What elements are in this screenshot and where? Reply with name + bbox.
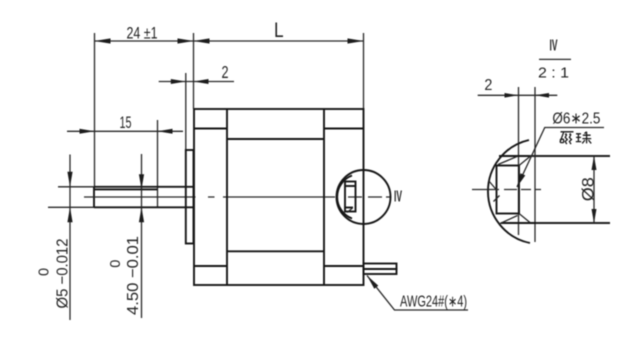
leader line AWG	[367, 276, 468, 311]
detail dimension line 2	[478, 94, 558, 96]
detail leader arrow	[517, 173, 525, 187]
svg-text:Ø8: Ø8	[579, 177, 597, 201]
extension line boss face x=185.8	[185, 73, 187, 150]
extension line shaft end x=94.5	[94, 33, 96, 187]
svg-text:0: 0	[108, 260, 124, 268]
rear endbell chamfer bottom	[324, 265, 364, 267]
front endbell chamfer top	[194, 128, 227, 130]
shaft bottom edge	[94, 206, 194, 208]
detail bead rectangle	[497, 166, 520, 214]
svg-text:IV: IV	[550, 37, 558, 54]
stator bottom line	[227, 250, 324, 252]
extension line rear face x=363.5	[363, 33, 365, 109]
detail Ø8 arrow up	[592, 156, 597, 170]
dimension line 2 (boss width)	[159, 81, 234, 83]
detail Ø8 extension top	[530, 155, 611, 157]
shaft top edge	[94, 186, 194, 188]
detail title underline	[539, 58, 571, 60]
arrow Ø5 up	[67, 207, 72, 222]
shaft top extension line	[58, 186, 94, 188]
detail bore top line Ø8	[499, 155, 610, 157]
dimension line 24±1 and L (shared line y=41)	[95, 40, 364, 42]
detail leader line	[517, 127, 545, 187]
svg-text:L: L	[274, 18, 284, 42]
svg-text:24 ±1: 24 ±1	[127, 23, 158, 42]
svg-text:AWG24#(∗4): AWG24#(∗4)	[400, 294, 467, 311]
bead inner bottom bar	[345, 207, 353, 209]
bead rectangle main view	[345, 182, 356, 212]
lead wires lower	[364, 269, 397, 274]
detail boundary arc	[488, 140, 530, 243]
arrow L right	[348, 38, 364, 43]
svg-text:0: 0	[37, 268, 53, 276]
arrow 4.50 down	[139, 174, 144, 189]
front endbell separation x=227	[226, 109, 228, 285]
svg-text:IV: IV	[394, 188, 402, 205]
extension line flat end x=157.5	[157, 120, 159, 207]
arrow Ø5 down	[67, 172, 72, 187]
label cizhu (magnetic bead) glyph 磁	[560, 132, 574, 144]
shaft bottom extension line	[48, 206, 94, 208]
shaft flat line	[94, 188, 158, 190]
hatch line bottom left	[499, 216, 518, 225]
svg-text:Ø6∗2.5: Ø6∗2.5	[552, 111, 600, 128]
svg-text:2: 2	[484, 77, 492, 94]
centerline main view	[84, 196, 391, 198]
boss rectangle (pilot)	[186, 150, 194, 244]
bead inner top bar	[345, 185, 356, 187]
label cizhu (magnetic bead) glyph 珠	[576, 132, 591, 144]
arrow 2 right	[194, 79, 209, 84]
dimension line 4.50 vertical x=141.5	[141, 154, 143, 318]
bead chamfer mark	[347, 208, 353, 213]
arrow 24±1 left	[95, 38, 111, 43]
detail Ø8 arrow down	[592, 209, 597, 223]
detail Ø8 extension bottom	[536, 222, 610, 224]
dimension line 15 (flat length)	[67, 130, 183, 132]
dimension line Ø5 vertical x=70	[69, 155, 71, 321]
hatch line left lower	[494, 196, 500, 202]
shaft end vertical	[93, 187, 95, 208]
detail Ø8 dimension line	[593, 156, 595, 223]
arrow 15 right	[158, 129, 173, 134]
svg-text:4.50 −0.01: 4.50 −0.01	[125, 236, 142, 315]
detail bore bottom line Ø8	[501, 222, 610, 224]
label underline	[545, 127, 604, 129]
stator top line	[227, 138, 324, 140]
svg-text:Ø5 −0.012: Ø5 −0.012	[55, 238, 72, 308]
svg-text:2 : 1: 2 : 1	[538, 64, 569, 81]
detail callout circle IV	[337, 170, 391, 224]
hatch line left upper	[489, 181, 498, 191]
svg-text:2: 2	[222, 62, 229, 82]
lead wires upper	[364, 264, 397, 270]
detail arrow 2 right	[535, 93, 549, 98]
extension line flange face x=193.5	[193, 33, 195, 109]
bead arc inside callout	[337, 176, 352, 219]
arrow 2 left	[171, 79, 186, 84]
front endbell chamfer bottom	[194, 265, 227, 267]
arrow 4.50 up	[139, 207, 144, 222]
arrow L left	[194, 38, 210, 43]
hatch line top right chamfer	[519, 157, 530, 166]
detail extension bead face x=518.5	[518, 87, 520, 235]
motor body outline	[194, 109, 364, 285]
hatch line bottom right chamfer	[519, 214, 530, 223]
leader arrow AWG	[367, 276, 378, 289]
rear endbell separation x=324	[323, 109, 325, 285]
detail arrow 2 left	[505, 93, 519, 98]
rear endbell chamfer top	[324, 128, 364, 130]
detail centerline	[472, 189, 541, 191]
arrow 24±1 right	[178, 38, 194, 43]
hatch line top left	[498, 157, 517, 165]
detail extension rear face x=535	[534, 87, 536, 242]
arrow 15 left	[80, 129, 95, 134]
svg-text:15: 15	[120, 114, 132, 132]
